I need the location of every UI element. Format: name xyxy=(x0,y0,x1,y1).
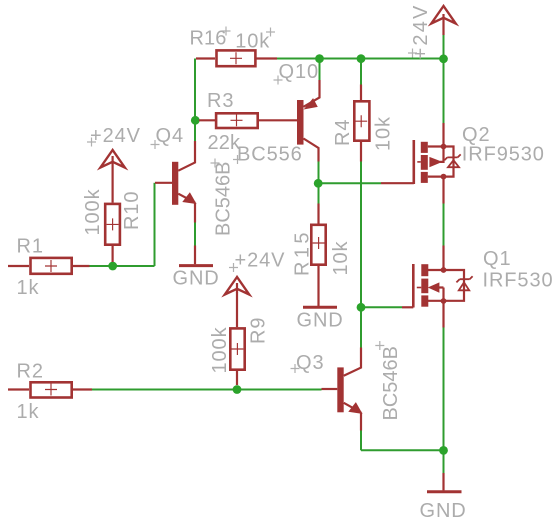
svg-text:R1: R1 xyxy=(17,236,44,258)
origin cross (10k R16) xyxy=(266,28,275,37)
resistor R16 xyxy=(196,50,277,66)
node rail +24V junction xyxy=(439,54,448,63)
svg-text:R3: R3 xyxy=(207,90,234,112)
supply +24V (above R9) xyxy=(225,277,249,295)
origin cross (Q10) xyxy=(274,76,283,85)
wire R16 left vertical xyxy=(194,59,196,142)
node R1/R10 junction xyxy=(108,262,117,271)
origin cross (Q3) xyxy=(291,364,300,373)
wire gate node to Q2 gate xyxy=(319,182,382,184)
resistor R2 xyxy=(8,382,92,397)
svg-text:R16: R16 xyxy=(190,28,227,50)
node rail-R4 junction xyxy=(357,54,366,63)
origin cross (+24V R9) xyxy=(229,263,238,272)
ground GND (Q4 emitter) xyxy=(179,246,213,266)
wire to Q1 gate xyxy=(361,306,402,308)
svg-text:1k: 1k xyxy=(17,277,40,299)
wire bottom horizontal xyxy=(361,449,444,451)
svg-text:GND: GND xyxy=(420,500,467,521)
resistor R15 xyxy=(311,204,325,307)
origin cross (+24V top right) xyxy=(408,49,417,58)
svg-text:R15: R15 xyxy=(292,229,314,276)
svg-text:R4: R4 xyxy=(332,119,354,146)
svg-text:GND: GND xyxy=(297,310,344,332)
transistor Q4 BC546B npn xyxy=(155,141,196,223)
origin cross (+24V R10) xyxy=(87,138,96,147)
svg-text:100k: 100k xyxy=(209,326,231,373)
svg-text:Q4: Q4 xyxy=(156,125,184,147)
svg-text:IRF530: IRF530 xyxy=(483,270,554,292)
resistor R3 xyxy=(199,113,297,128)
wire Q2 drain to Q1 drain xyxy=(443,204,445,246)
node R2/R9 junction xyxy=(233,385,242,394)
wire Q3 emitter down xyxy=(360,431,362,451)
origin cross (BC556) xyxy=(233,155,242,164)
ground GND (bottom) xyxy=(427,473,462,492)
wire R1 node up to Q4 base xyxy=(154,183,156,266)
svg-text:BC546B: BC546B xyxy=(380,346,402,421)
svg-text:22k: 22k xyxy=(208,132,241,154)
wire R1 node horizontal xyxy=(90,265,155,267)
origin cross (BC546B Q3) xyxy=(375,341,384,350)
svg-text:10k: 10k xyxy=(235,31,270,53)
wire R4 bottom down to Q3 collector xyxy=(360,162,362,348)
svg-text:1k: 1k xyxy=(17,401,40,423)
origin cross (BC546B Q4) xyxy=(211,159,220,168)
node Q1 gate junction xyxy=(357,303,366,312)
wire Q4 emitter to GND xyxy=(194,223,196,246)
svg-text:+24V: +24V xyxy=(410,3,432,59)
wire to R4 top xyxy=(360,59,362,85)
wire Q1 source down to GND xyxy=(443,328,445,474)
wire R2 to Q3 base xyxy=(92,389,322,391)
svg-text:R10: R10 xyxy=(121,191,143,230)
wire to Q10 emitter xyxy=(319,59,321,81)
svg-text:10k: 10k xyxy=(330,240,352,275)
resistor R4 xyxy=(354,85,369,162)
wire gate node down to R15 xyxy=(318,183,320,203)
resistor R10 xyxy=(105,168,120,262)
svg-text:+24V: +24V xyxy=(235,250,286,272)
svg-text:Q10: Q10 xyxy=(279,61,320,83)
svg-text:100k: 100k xyxy=(82,188,104,235)
mosfet Q1 IRF530 n-channel xyxy=(402,246,473,328)
supply +24V (above R10) xyxy=(100,150,124,168)
node R3/R16 junction xyxy=(191,116,200,125)
ground GND (R15) xyxy=(303,306,337,309)
svg-text:BC556: BC556 xyxy=(237,144,303,166)
svg-text:R2: R2 xyxy=(17,361,44,383)
svg-text:Q2: Q2 xyxy=(462,124,490,146)
svg-text:GND: GND xyxy=(173,268,220,290)
svg-text:BC546B: BC546B xyxy=(213,162,235,237)
wire Q10 collector to gate node xyxy=(318,162,320,184)
transistor Q10 BC556 pnp xyxy=(297,80,320,162)
wire +24V stem top right xyxy=(443,35,445,59)
supply +24V (top right) xyxy=(431,6,455,35)
origin cross (Q4) xyxy=(151,140,160,149)
svg-text:R9: R9 xyxy=(248,317,270,344)
node rail-Q10 junction xyxy=(315,54,324,63)
svg-text:IRF9530: IRF9530 xyxy=(462,144,545,166)
resistor R9 xyxy=(230,292,244,385)
node bottom GND junction xyxy=(439,446,448,455)
resistor R1 xyxy=(8,258,90,274)
svg-text:10k: 10k xyxy=(373,116,395,151)
wire to Q2 source xyxy=(443,59,445,124)
svg-text:Q1: Q1 xyxy=(483,248,511,270)
transistor Q3 BC546B npn xyxy=(322,348,362,431)
origin cross (R16) xyxy=(222,27,231,36)
mosfet Q2 IRF9530 p-channel xyxy=(381,123,461,204)
svg-text:+24V: +24V xyxy=(90,125,141,147)
svg-text:Q3: Q3 xyxy=(296,352,324,374)
node Q2 gate junction xyxy=(314,179,323,188)
wire top +24V rail xyxy=(277,58,444,60)
